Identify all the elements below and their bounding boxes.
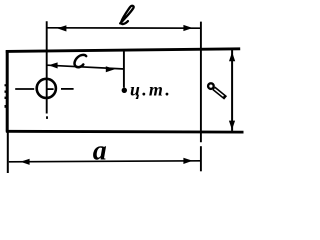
plate bottom edge [6,130,244,134]
label b (rotated) [208,83,226,98]
hole centerline horizontal [15,88,34,90]
plate left edge [6,50,9,132]
svg-text:a: a [93,136,107,167]
label c [75,55,87,67]
arrow b top [229,52,235,61]
svg-text:ц.т.: ц.т. [130,79,172,99]
arrow b bottom [229,121,235,130]
dimension line a [9,161,201,162]
dimension line c [48,65,125,69]
dimension line b (vertical) [231,50,233,131]
dimension line l [47,27,201,29]
left edge tick artifacts [5,84,7,108]
arrow l left [57,25,66,31]
arrow a right [183,158,192,164]
drop line to c.g. point [123,50,125,87]
hole circle [37,79,56,98]
arrow c left [49,62,58,68]
arrow a left [20,159,29,165]
c.g. dot [122,88,127,93]
arrow c right [106,66,115,72]
plate top edge [6,49,240,52]
right extension line (for l and a) [200,22,202,143]
label l [120,6,133,24]
extension line below left edge (for a) [7,132,9,173]
hole centerline vertical [46,21,48,113]
arrow l right [183,25,192,31]
